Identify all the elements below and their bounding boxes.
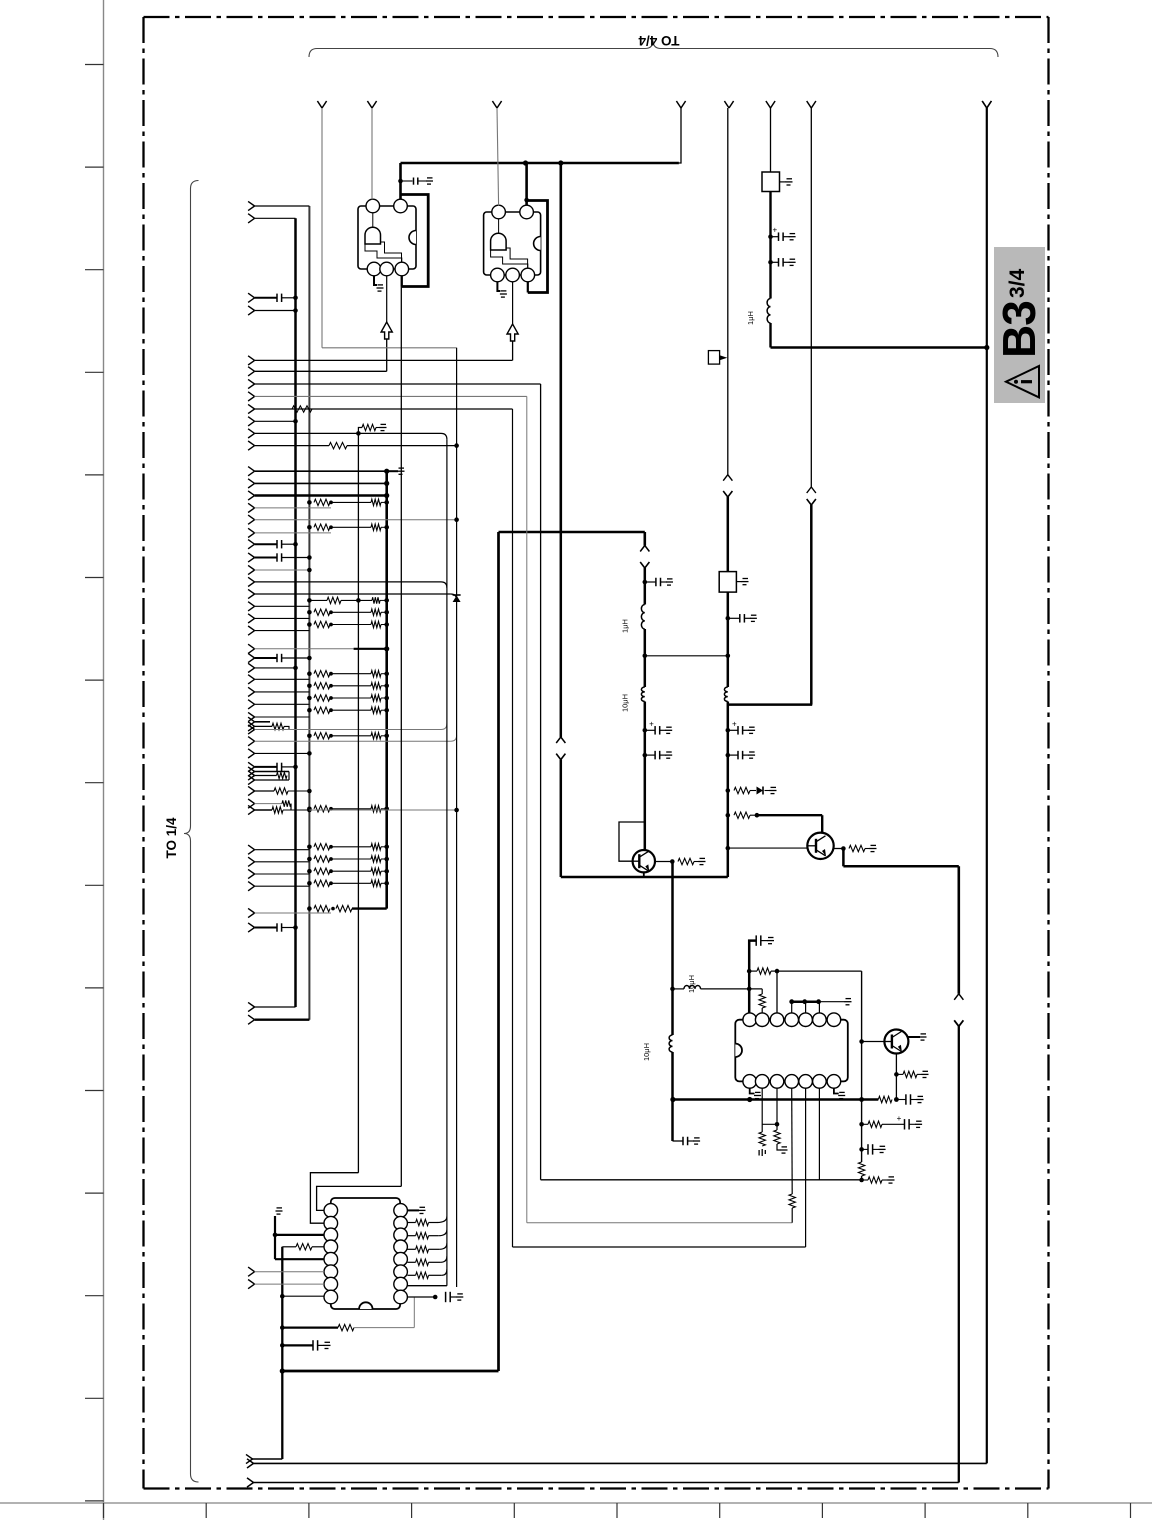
svg-text:+: +	[773, 226, 778, 235]
svg-text:10μH: 10μH	[621, 694, 630, 712]
svg-text:+: +	[732, 719, 737, 728]
svg-text:TO 1/4: TO 1/4	[164, 817, 179, 859]
svg-text:TO 4/4: TO 4/4	[638, 33, 680, 48]
svg-text:10μH: 10μH	[642, 1043, 651, 1061]
svg-text:1μH: 1μH	[621, 619, 630, 633]
svg-text:+: +	[897, 1114, 902, 1123]
svg-text:B3: B3	[993, 301, 1045, 358]
svg-text:3/4: 3/4	[1006, 268, 1029, 298]
svg-text:1μH: 1μH	[746, 311, 755, 325]
svg-text:+: +	[649, 719, 654, 728]
svg-text:10μH: 10μH	[687, 975, 696, 993]
